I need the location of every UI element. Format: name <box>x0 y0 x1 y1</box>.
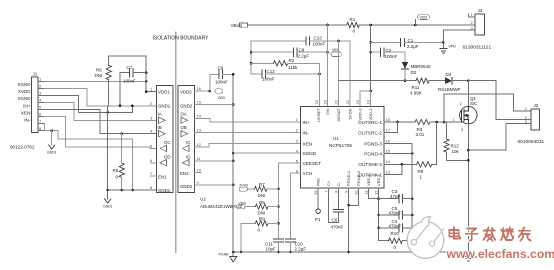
svg-text:OA: OA <box>181 112 187 117</box>
svg-text:XEN: XEN <box>21 111 31 116</box>
svg-text:115k: 115k <box>288 65 298 70</box>
svg-text:VEE-1: VEE-1 <box>366 174 371 186</box>
svg-text:2.2µF: 2.2µF <box>407 44 419 49</box>
svg-text:D4: D4 <box>446 72 452 77</box>
svg-text:OC: OC <box>164 140 171 145</box>
wire GND1 vertical to lower ground <box>106 106 109 199</box>
svg-text:470nF: 470nF <box>389 210 402 215</box>
U1 right pin names <box>358 120 382 178</box>
svg-text:14: 14 <box>197 114 202 119</box>
transistor Q1 SiC MOSFET <box>453 96 479 132</box>
J1 pin 4 <box>38 98 45 103</box>
resistor R8 <box>417 122 437 180</box>
svg-text:R11: R11 <box>412 85 420 90</box>
svg-text:IN+: IN+ <box>23 103 31 108</box>
U1 pin numbers bottom rotated <box>313 190 379 195</box>
svg-text:VDD2: VDD2 <box>180 90 192 95</box>
wire J1 pin7 to GND drop <box>44 124 46 131</box>
capacitor C10 <box>285 239 306 253</box>
test point P1 <box>315 188 321 222</box>
U2 pin 6 stub <box>150 158 156 163</box>
node IN+ label <box>23 103 31 108</box>
resistor R3 <box>415 119 430 137</box>
svg-text:EN1: EN1 <box>158 175 167 180</box>
svg-text:GND1: GND1 <box>103 205 113 209</box>
J1 pin 7 <box>38 119 45 124</box>
resistor R7 <box>248 182 279 198</box>
ground bars at source <box>465 252 472 261</box>
wire DESAT line <box>339 80 417 82</box>
wire J1 pin3 to GND1 vertical <box>45 96 134 114</box>
U2 pin 12 IC wire to NCP XEN <box>195 142 301 147</box>
J1 pin 6 <box>38 112 45 117</box>
svg-text:PGND-4: PGND-4 <box>364 152 382 157</box>
U2 pin 16 stub to VDD node <box>195 86 211 92</box>
svg-text:OD: OD <box>164 155 171 160</box>
wire VEE pins join <box>369 188 380 241</box>
svg-text:12: 12 <box>374 190 379 195</box>
U2 pin 8 stub <box>150 185 153 190</box>
U2 pin 10 EN2 stub <box>195 168 202 173</box>
ground GND1 lower chevron <box>103 199 113 209</box>
J3 pin 2 number <box>471 20 474 25</box>
svg-text:61300311121: 61300311121 <box>463 45 492 51</box>
svg-text:VIN: VIN <box>325 108 330 115</box>
U2 pin 1 stub <box>145 87 157 93</box>
svg-text:GND1: GND1 <box>158 104 171 109</box>
ladder left vertical <box>250 41 253 74</box>
svg-text:C12: C12 <box>267 69 276 74</box>
ground VPU <box>440 41 456 53</box>
net label VIN <box>331 48 342 57</box>
diode D4 <box>438 72 468 92</box>
svg-text:100nF: 100nF <box>123 79 136 84</box>
J1 pin 8 <box>38 126 45 131</box>
svg-text:ISOLATION BOUNDARY: ISOLATION BOUNDARY <box>153 36 210 42</box>
capacitor C3 <box>379 189 413 203</box>
U2 pin 15 GND2 wire <box>195 100 234 105</box>
U1 top pin names rotated <box>316 108 373 122</box>
net label VDD top <box>415 15 429 25</box>
svg-text:VDD1: VDD1 <box>158 90 170 95</box>
svg-text:IN-: IN- <box>303 130 310 135</box>
net label 5V00 <box>239 184 248 192</box>
U1 bottom pin names rotated <box>316 170 382 186</box>
svg-text:IA: IA <box>158 112 162 117</box>
svg-text:IN+: IN+ <box>303 120 311 125</box>
svg-text:C2: C2 <box>386 48 392 53</box>
svg-text:DNI: DNI <box>258 193 266 198</box>
svg-text:4.99K: 4.99K <box>410 91 422 96</box>
svg-text:23: 23 <box>323 99 328 104</box>
svg-text:R2: R2 <box>289 58 295 63</box>
resistor R2 <box>251 58 319 70</box>
gate driver U1 NCP51705 <box>300 107 384 189</box>
isolation boundary line <box>175 32 177 252</box>
svg-text:OUTSNK-2: OUTSNK-2 <box>358 162 382 167</box>
svg-text:90122-0762: 90122-0762 <box>10 145 35 150</box>
U2 pin 13 OB wire to NCP IN- <box>195 127 301 132</box>
svg-text:R7: R7 <box>259 182 265 187</box>
svg-text:PAD: PAD <box>316 178 321 186</box>
svg-text:R6: R6 <box>96 68 102 73</box>
capacitor C7 <box>120 65 146 106</box>
watermark text line1 <box>449 227 530 240</box>
wire VDD-3 pin20 jog <box>360 91 371 107</box>
capacitor C9 <box>210 66 233 92</box>
wire J1 pin5 to ADuM IB <box>45 110 157 134</box>
svg-text:R9: R9 <box>259 217 265 222</box>
svg-text:SiC: SiC <box>470 101 478 106</box>
wire R6 top rail to VDD1 drop <box>109 56 148 92</box>
U2 pin 14 OA wire to NCP IN+ <box>195 114 301 122</box>
svg-text:VIN: VIN <box>332 48 338 52</box>
svg-text:C1: C1 <box>408 38 414 43</box>
wire VEESET node riser <box>277 163 300 239</box>
svg-text:470nF: 470nF <box>331 225 344 230</box>
U2 right pin labels and buffers <box>180 90 193 190</box>
U1 left pin names <box>303 120 322 176</box>
svg-text:VDD: VDD <box>420 16 428 20</box>
svg-text:U2: U2 <box>200 197 206 202</box>
svg-text:XVDD: XVDD <box>18 89 31 94</box>
wire rail after R1 to J3 pin2 <box>326 24 475 27</box>
resistor R10 <box>379 231 413 250</box>
svg-text:J2: J2 <box>534 103 539 108</box>
wire PGND bottom row <box>232 251 468 254</box>
svg-text:24: 24 <box>314 99 319 104</box>
svg-text:SVDD: SVDD <box>347 108 352 119</box>
wire VIN riser pin23 <box>327 25 329 107</box>
U2 pin 4 stub <box>150 129 153 134</box>
svg-text:UVSET: UVSET <box>316 108 321 122</box>
svg-text:VCH: VCH <box>303 171 313 176</box>
svg-text:C8: C8 <box>299 48 305 53</box>
capacitor C11 <box>265 239 284 253</box>
J1 pin 2 <box>38 84 45 89</box>
svg-text:DNI: DNI <box>95 73 103 78</box>
svg-text:ID: ID <box>186 155 190 160</box>
wire drain node <box>467 79 470 106</box>
svg-text:100nF: 100nF <box>385 54 398 59</box>
J1 pin 3 <box>38 91 45 96</box>
connector J1 <box>10 72 38 150</box>
wire J1 pin2 GND1 row <box>45 88 157 105</box>
connector J2 <box>518 103 545 145</box>
svg-text:IC: IC <box>186 140 190 145</box>
svg-text:GND1: GND1 <box>47 151 57 155</box>
svg-text:R5: R5 <box>259 200 265 205</box>
diode D2 MBR0540 <box>402 52 431 82</box>
svg-text:XGND: XGND <box>17 82 31 87</box>
wire GND1 row to ADuM pin8 <box>108 189 157 191</box>
svg-text:10: 10 <box>353 190 358 195</box>
U2 pin 11 ID wire <box>195 156 234 161</box>
svg-text:16: 16 <box>197 86 202 91</box>
svg-text:10k: 10k <box>452 149 460 154</box>
resistor R5b <box>245 200 278 216</box>
resistor R11 <box>410 78 445 95</box>
svg-text:XGND: XGND <box>17 96 31 101</box>
svg-text:U1: U1 <box>333 136 339 141</box>
resistor R6 <box>95 56 112 106</box>
svg-text:17: 17 <box>386 128 391 133</box>
svg-text:GND1: GND1 <box>158 188 171 193</box>
svg-text:13: 13 <box>386 170 391 175</box>
svg-text:13: 13 <box>197 127 202 132</box>
svg-text:OUTSRC-2: OUTSRC-2 <box>358 130 382 135</box>
U1 pin numbers top rotated <box>314 99 371 104</box>
svg-text:PGND-2: PGND-2 <box>356 170 361 186</box>
svg-text:22: 22 <box>334 99 339 104</box>
svg-text:0010004031: 0010004031 <box>518 139 545 145</box>
wire J2 pin3 source sense <box>468 124 531 150</box>
U2 pin 9 GND2 wire <box>195 180 234 185</box>
svg-text:100nF: 100nF <box>262 77 275 82</box>
svg-text:100nF: 100nF <box>215 80 228 85</box>
node XGND label <box>17 82 31 87</box>
svg-text:100nF: 100nF <box>313 42 326 47</box>
svg-text:C13: C13 <box>314 36 323 41</box>
J3 pin 1 stub <box>469 12 475 17</box>
svg-text:IN-: IN- <box>24 118 31 123</box>
capacitor C12 <box>251 69 321 82</box>
svg-text:EN2: EN2 <box>180 171 189 176</box>
wire OUTSNK pins to R8 <box>384 163 417 174</box>
svg-text:D2: D2 <box>411 70 417 75</box>
svg-text:XEN: XEN <box>303 141 313 146</box>
resistor R1 <box>347 17 360 34</box>
svg-text:18: 18 <box>386 117 391 122</box>
svg-text:MBR0540: MBR0540 <box>411 64 432 69</box>
wire SGND row to NCP pin4 <box>233 152 300 154</box>
node IN- label <box>24 118 31 123</box>
isolation boundary label <box>153 36 210 42</box>
U2 left pin labels and buffers <box>158 90 171 193</box>
svg-text:10: 10 <box>197 168 202 173</box>
svg-text:J3: J3 <box>478 8 483 13</box>
svg-text:R10: R10 <box>391 231 400 236</box>
svg-text:C6: C6 <box>332 218 338 223</box>
wire DESAT riser pin22 <box>338 41 340 107</box>
capacitor C13 <box>251 36 350 47</box>
svg-text:www.elecfans.com: www.elecfans.com <box>446 247 554 261</box>
J1 pin 1 <box>38 77 45 82</box>
watermark text line2 <box>446 247 554 261</box>
svg-text:C-: C- <box>336 181 341 186</box>
resistor R12 <box>444 122 468 160</box>
svg-text:47pF: 47pF <box>390 194 401 199</box>
svg-text:R1: R1 <box>350 17 356 22</box>
svg-text:25: 25 <box>313 190 318 195</box>
svg-text:PGND-3: PGND-3 <box>364 142 382 147</box>
svg-text:19: 19 <box>366 99 371 104</box>
U1 pin numbers left <box>296 117 299 173</box>
svg-text:VEE-2: VEE-2 <box>376 174 381 186</box>
svg-text:14: 14 <box>386 159 391 164</box>
capacitor C6 flying cap <box>328 188 343 230</box>
wire UVSET riser pin24 <box>319 63 321 106</box>
svg-text:GND2: GND2 <box>180 104 193 109</box>
wire VPU to J3 pin3 <box>443 30 475 42</box>
svg-text:15: 15 <box>386 149 391 154</box>
svg-text:12: 12 <box>197 142 202 147</box>
svg-text:21: 21 <box>345 99 350 104</box>
svg-text:J1: J1 <box>33 72 38 77</box>
junction dots on GND1 row <box>119 105 122 108</box>
wire gate line <box>430 121 460 124</box>
U1 pin numbers right <box>386 117 391 175</box>
wire VDD riser pin19 <box>369 25 372 107</box>
wire J2 pin1 gate sense <box>444 94 531 122</box>
connector J3 <box>463 8 492 51</box>
isolator U2 ADuM142E1WBRQZ <box>156 85 242 209</box>
wire J1 pin4 to ADuM IA <box>45 103 157 121</box>
net flag VBias <box>231 23 248 28</box>
svg-text:2.2µF: 2.2µF <box>295 247 307 252</box>
svg-text:2.2µF: 2.2µF <box>298 54 310 59</box>
resistor R5 pulldown on IB row <box>113 132 125 191</box>
svg-text:C7: C7 <box>127 65 133 70</box>
svg-text:DESAT: DESAT <box>336 108 341 122</box>
svg-text:VDD-1: VDD-1 <box>368 108 373 121</box>
J1 pin 5 <box>38 105 45 110</box>
wire J1 pin1 to ADuM VDD1 <box>45 80 148 92</box>
wire J1 pin8 stub <box>45 129 135 191</box>
svg-text:VPU: VPU <box>449 44 457 48</box>
ground PGND triangle <box>219 252 237 262</box>
capacitor C4 <box>379 219 413 232</box>
ground GND1 under J1 pin8 <box>47 131 57 155</box>
svg-text:R12: R12 <box>451 144 460 149</box>
svg-text:GND2: GND2 <box>180 184 193 189</box>
wire drain to J2 pin2 <box>468 81 531 120</box>
net label VDD lower <box>237 201 247 209</box>
svg-text:C+: C+ <box>326 180 331 186</box>
svg-text:16: 16 <box>386 139 391 144</box>
wire VBias rail <box>248 24 347 26</box>
node XEN label <box>21 111 31 116</box>
net label VDD at U2 pin16 <box>215 89 225 100</box>
wire OUTSRC pins to R3 <box>384 121 415 133</box>
wire J1 pin6 to ADuM OC <box>45 117 157 149</box>
wire SVDD riser pin21 <box>349 41 351 107</box>
svg-text:VDD-3: VDD-3 <box>357 108 362 121</box>
U2 pin 7 stub <box>150 171 156 176</box>
capacitor C8 <box>251 48 329 59</box>
svg-text:P1: P1 <box>315 217 321 222</box>
svg-text:PGND-1: PGND-1 <box>346 170 351 186</box>
U2 pin 5 stub <box>150 143 153 148</box>
U2 pin 2 stub <box>150 101 153 106</box>
svg-text:DNI: DNI <box>258 211 266 216</box>
svg-text:IB: IB <box>158 125 162 130</box>
resistor R9 <box>240 217 279 254</box>
svg-text:VDD: VDD <box>218 96 226 100</box>
wire VCH to C10 <box>290 173 300 239</box>
wire source vertical <box>467 124 470 252</box>
wire PGND pins riser <box>384 144 414 253</box>
svg-text:RS1BMWF: RS1BMWF <box>438 87 461 92</box>
watermark logo circle <box>407 217 444 259</box>
svg-text:R5: R5 <box>113 168 119 173</box>
U2 pin 3 stub <box>150 115 153 120</box>
svg-text:OB: OB <box>181 125 187 130</box>
GND2/PGND vertical bus <box>232 73 235 252</box>
J3 pin 3 number <box>471 25 474 30</box>
wire PGND-1 PGND-2 join <box>347 188 358 252</box>
node XGND2 label <box>17 96 31 101</box>
svg-text:C9: C9 <box>218 66 224 71</box>
J2 pin numbers <box>525 106 528 124</box>
svg-text:20: 20 <box>355 99 360 104</box>
svg-text:15: 15 <box>197 100 202 105</box>
node XVDD label <box>18 89 31 94</box>
svg-text:SGND: SGND <box>303 151 317 156</box>
svg-text:ADuM142E1WBRQZ: ADuM142E1WBRQZ <box>200 204 243 209</box>
capacitor C1 <box>371 38 444 49</box>
svg-text:PGND: PGND <box>219 253 230 257</box>
capacitor C2 <box>371 48 405 59</box>
svg-text:3.01: 3.01 <box>416 132 425 137</box>
svg-text:470nF: 470nF <box>389 223 402 228</box>
svg-text:VEESET: VEESET <box>303 161 322 166</box>
svg-text:NCP51705: NCP51705 <box>329 143 352 148</box>
svg-text:10pF: 10pF <box>266 247 277 252</box>
capacitor C5 <box>379 206 413 219</box>
svg-text:R8: R8 <box>418 169 424 174</box>
